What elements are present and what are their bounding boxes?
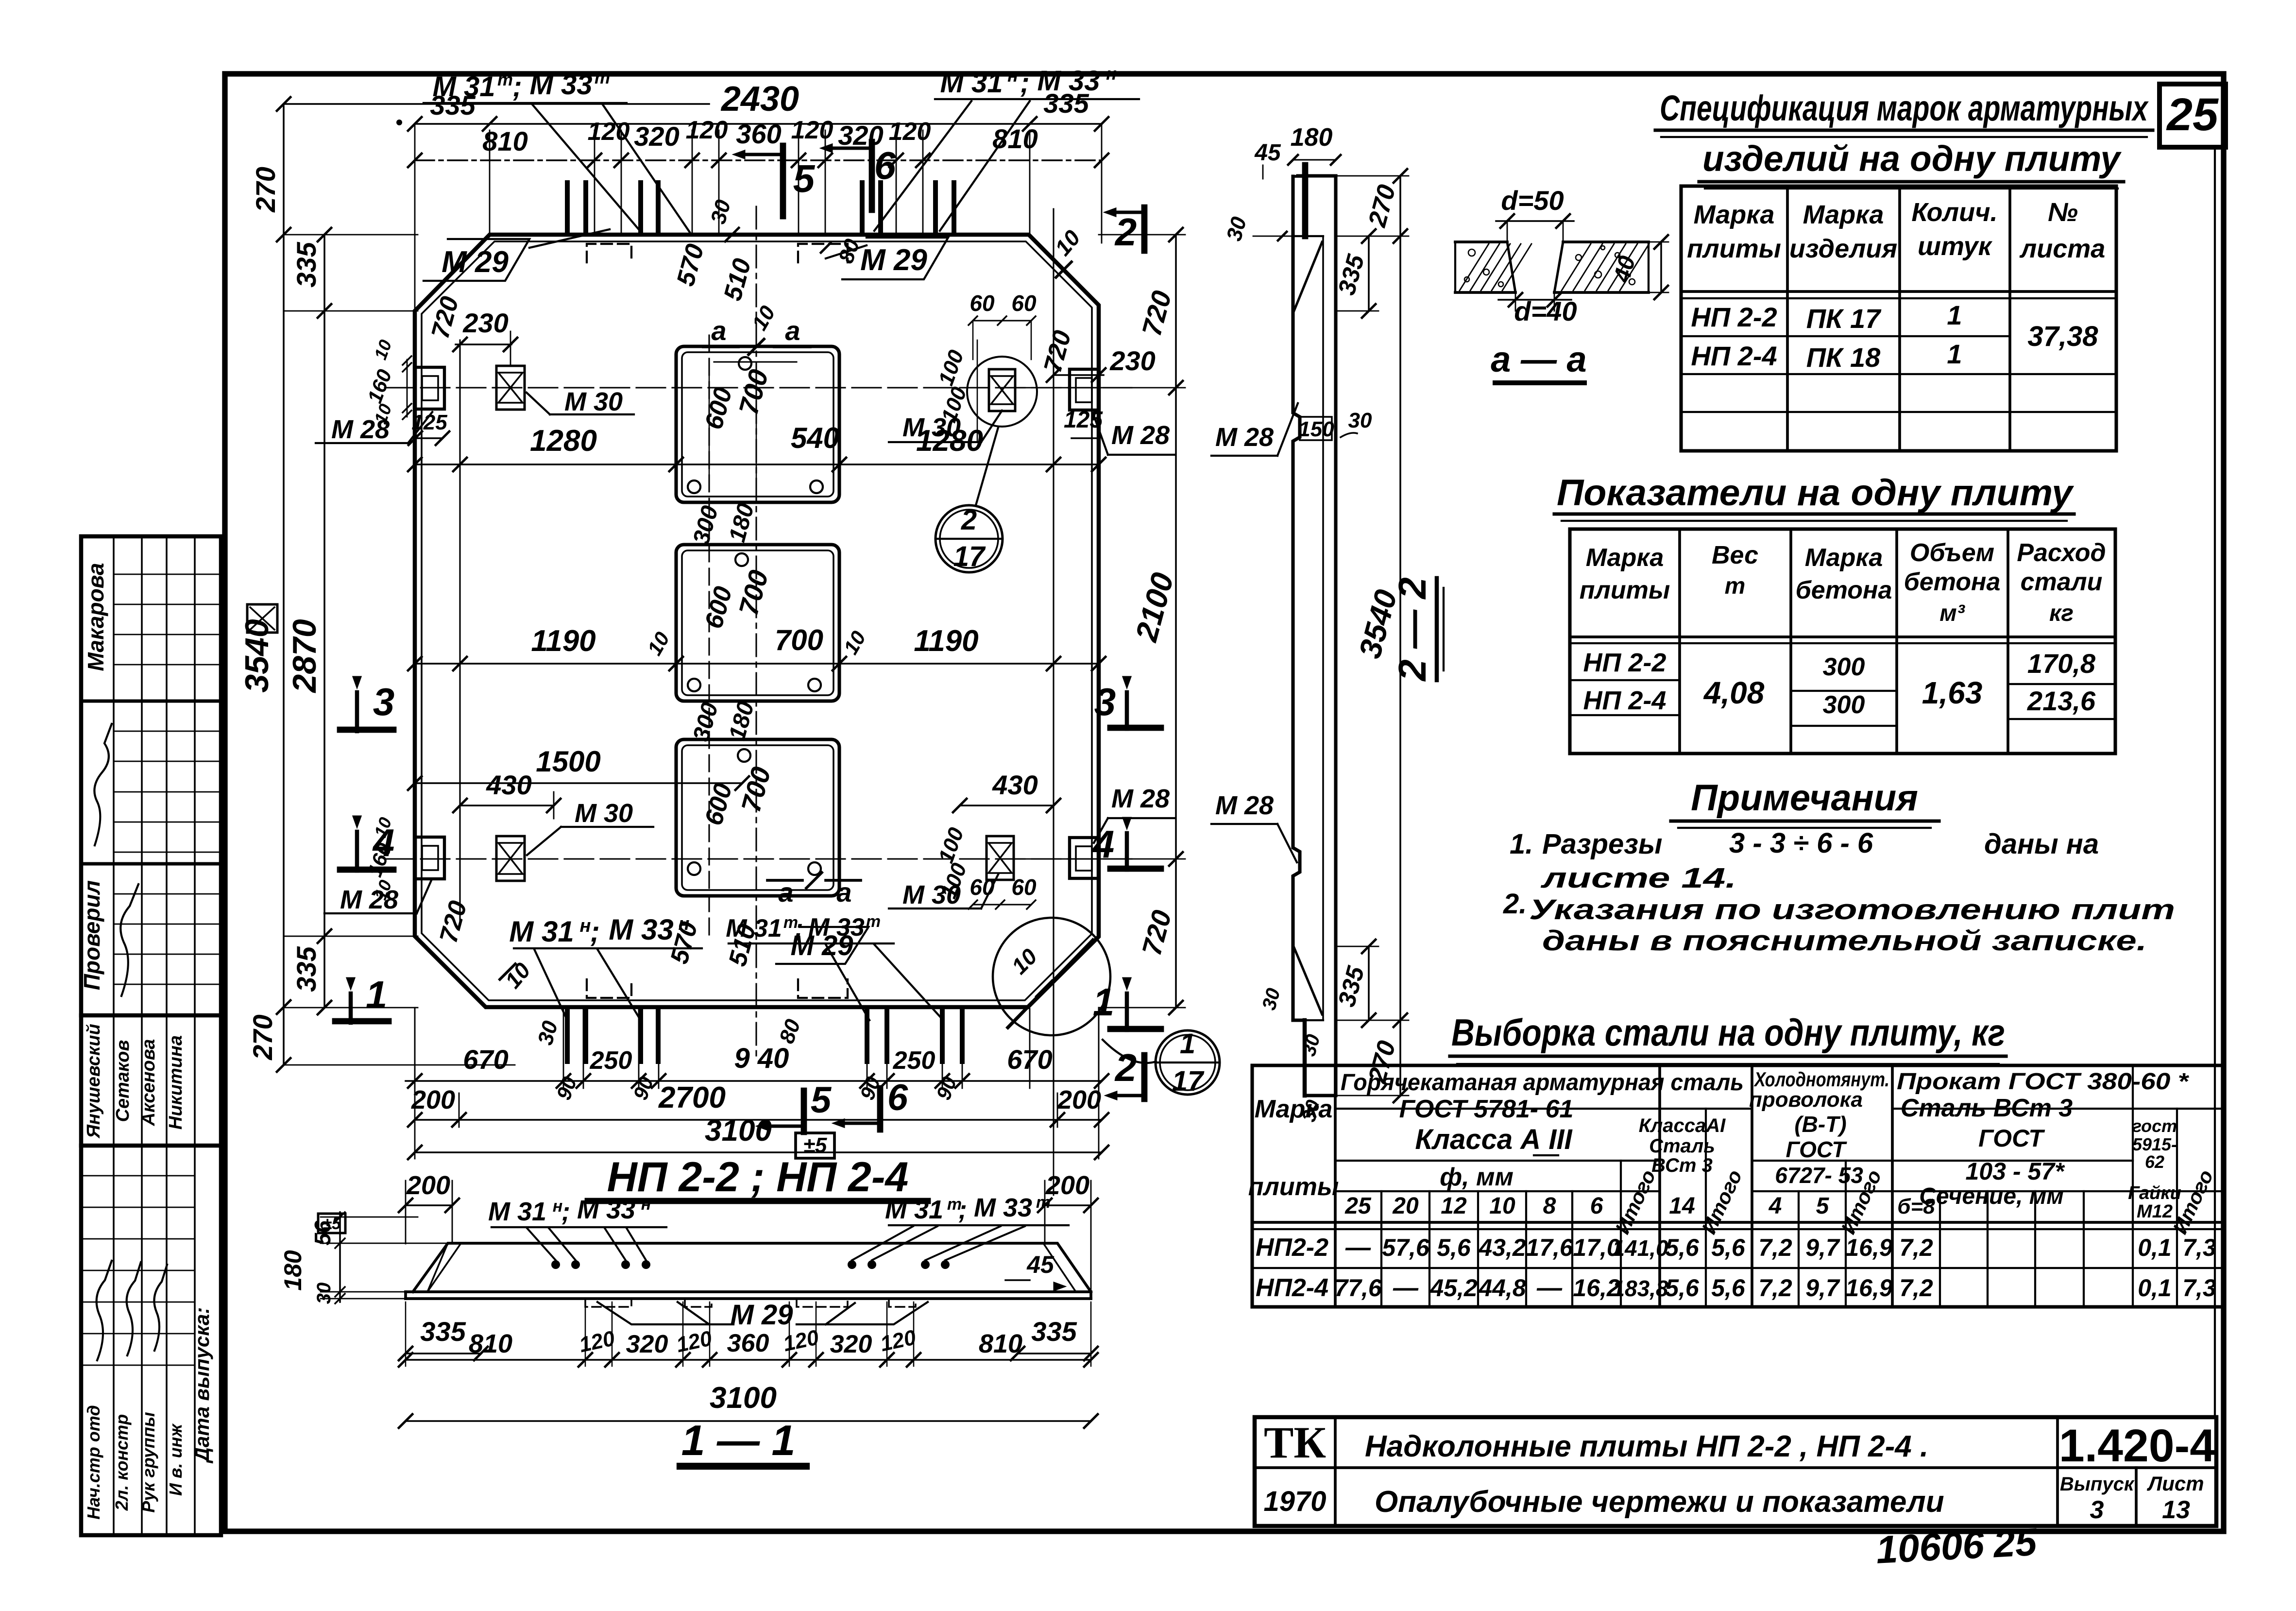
detail circle bottom-right chamfer xyxy=(993,918,1110,1035)
svg-text:335: 335 xyxy=(420,1316,466,1347)
svg-text:проволока: проволока xyxy=(1749,1088,1863,1112)
svg-text:1280: 1280 xyxy=(530,424,597,458)
svg-text:листа: листа xyxy=(2019,234,2106,263)
svg-text:213,6: 213,6 xyxy=(2027,686,2096,716)
svg-text:100: 100 xyxy=(937,860,971,902)
svg-text:335: 335 xyxy=(1333,963,1370,1010)
svg-text:30: 30 xyxy=(1258,986,1284,1012)
svg-text:Сетаков: Сетаков xyxy=(113,1040,133,1122)
svg-text:И в. инж: И в. инж xyxy=(166,1423,186,1496)
svg-text:М 28: М 28 xyxy=(1215,423,1274,452)
svg-text:изделий на одну плиту: изделий на одну плиту xyxy=(1702,138,2122,179)
svg-text:3100: 3100 xyxy=(705,1114,772,1148)
svg-text:плиты: плиты xyxy=(1248,1173,1339,1201)
svg-text:±5: ±5 xyxy=(323,1215,341,1233)
top extension lines xyxy=(489,130,491,233)
section 2-2 dim 335 top xyxy=(1368,236,1370,311)
right dim line 720-2100-720 xyxy=(1175,235,1177,1008)
svg-text:Примечания: Примечания xyxy=(1691,777,1918,819)
svg-text:30: 30 xyxy=(1222,214,1251,243)
svg-text:125: 125 xyxy=(1064,407,1103,433)
svg-text:КлассаАI: КлассаАI xyxy=(1639,1115,1726,1136)
svg-text:ВСт 3: ВСт 3 xyxy=(1651,1155,1713,1176)
svg-text:670: 670 xyxy=(1007,1044,1052,1075)
svg-text:200: 200 xyxy=(1057,1085,1101,1114)
dimension chain 335-2430-335 top xyxy=(415,123,1102,125)
svg-text:3: 3 xyxy=(373,680,395,723)
svg-text:120: 120 xyxy=(878,1325,918,1356)
label 150 box section xyxy=(1300,417,1332,440)
left dim line 335-2870-335 xyxy=(323,235,325,1008)
dim line 1190-700-1190 xyxy=(415,663,1099,665)
svg-text:10606: 10606 xyxy=(1875,1523,1985,1572)
detail a-a dim d50 xyxy=(1496,220,1574,222)
section 2-2 chamfer diagonals xyxy=(1294,242,1322,311)
svg-text:45: 45 xyxy=(1026,1251,1054,1278)
svg-text:17: 17 xyxy=(953,541,986,572)
svg-text:т: т xyxy=(1725,573,1746,599)
svg-text:М 31: М 31 xyxy=(726,914,782,943)
svg-text:270: 270 xyxy=(250,167,281,212)
svg-text:Марка: Марка xyxy=(1586,544,1664,572)
svg-text:4: 4 xyxy=(372,821,395,864)
svg-text:4: 4 xyxy=(1769,1193,1782,1219)
svg-text:М 30: М 30 xyxy=(575,799,633,828)
dim 230 top-right xyxy=(1054,374,1104,376)
svg-text:670: 670 xyxy=(463,1044,508,1075)
svg-text:ПК 17: ПК 17 xyxy=(1806,303,1882,334)
chamfer diagonal emphasized xyxy=(1008,940,1093,1028)
dimension chain 810-120-320-120-360-120-320-120-810 top xyxy=(415,159,1102,161)
svg-text:200: 200 xyxy=(1045,1171,1089,1200)
svg-text:М 33: М 33 xyxy=(577,1195,635,1224)
svg-text:3: 3 xyxy=(1094,680,1116,723)
svg-text:320: 320 xyxy=(830,1330,872,1358)
svg-text:плиты: плиты xyxy=(1687,234,1781,263)
opening O1 xyxy=(676,346,839,502)
svg-text:1.420-4: 1.420-4 xyxy=(2059,1420,2215,1472)
svg-text:25: 25 xyxy=(1344,1193,1372,1219)
svg-text:0,1: 0,1 xyxy=(2138,1274,2172,1302)
svg-text:6: 6 xyxy=(874,144,896,187)
lifting hole circles O3 xyxy=(738,749,750,762)
svg-text:10: 10 xyxy=(1006,943,1042,979)
svg-text:320: 320 xyxy=(634,121,679,152)
svg-text:60: 60 xyxy=(969,291,995,316)
svg-text:270: 270 xyxy=(247,1014,278,1060)
svg-text:Сталь: Сталь xyxy=(1649,1135,1715,1157)
svg-text:100: 100 xyxy=(934,347,969,389)
svg-text:300: 300 xyxy=(1823,691,1865,719)
svg-text:90: 90 xyxy=(552,1074,581,1103)
axis line through holes xyxy=(708,335,710,938)
svg-text:13: 13 xyxy=(2162,1496,2190,1524)
steel table horizontals xyxy=(1335,1108,1752,1110)
dim 335 section left xyxy=(406,1353,481,1354)
svg-text:3540: 3540 xyxy=(238,619,275,692)
svg-text:н: н xyxy=(641,1195,651,1214)
svg-text:9,7: 9,7 xyxy=(1805,1274,1840,1302)
svg-text:5: 5 xyxy=(793,157,816,200)
svg-text:300: 300 xyxy=(688,700,723,744)
title block frame xyxy=(1255,1417,2216,1526)
svg-text:штук: штук xyxy=(1918,232,1993,261)
svg-text:т: т xyxy=(497,69,513,89)
svg-text:М 33: М 33 xyxy=(1037,65,1100,97)
steel table frame xyxy=(1252,1065,2224,1307)
section 1-1 left dims xyxy=(321,1243,452,1244)
svg-text:320: 320 xyxy=(626,1330,668,1358)
svg-text:360: 360 xyxy=(727,1329,769,1357)
svg-text:М 28: М 28 xyxy=(1111,784,1170,813)
svg-text:10: 10 xyxy=(839,627,870,658)
svg-text:1190: 1190 xyxy=(531,624,595,658)
svg-text:1500: 1500 xyxy=(536,745,600,778)
svg-text:1: 1 xyxy=(1947,339,1962,369)
svg-text:a: a xyxy=(778,877,793,908)
svg-text:7,2: 7,2 xyxy=(1758,1274,1792,1302)
svg-text:200: 200 xyxy=(411,1085,455,1114)
detail a-a trapezoid hole xyxy=(1507,242,1515,292)
svg-text:335: 335 xyxy=(291,946,322,992)
svg-text:9 40: 9 40 xyxy=(734,1043,789,1074)
svg-text:720: 720 xyxy=(434,898,472,946)
svg-text:25: 25 xyxy=(2166,89,2219,140)
label M29 top-right parallelogram xyxy=(842,238,948,279)
svg-text:;: ; xyxy=(561,1197,570,1226)
svg-text:М 28: М 28 xyxy=(1215,791,1274,820)
svg-text:a: a xyxy=(711,315,726,346)
specification table frame xyxy=(1681,186,2116,451)
svg-text:300: 300 xyxy=(688,503,723,547)
svg-text:М 29: М 29 xyxy=(442,245,509,279)
svg-text:14: 14 xyxy=(1669,1193,1695,1219)
svg-text:100: 100 xyxy=(934,824,969,866)
svg-text:ПК 18: ПК 18 xyxy=(1806,342,1881,373)
axis upper embeds horizontal xyxy=(385,387,1132,388)
leader lines M31n M33n to prongs xyxy=(874,101,971,231)
svg-text:120: 120 xyxy=(577,1326,617,1357)
svg-text:150: 150 xyxy=(1298,417,1334,441)
svg-text:М 33: М 33 xyxy=(609,913,673,946)
svg-text:Янушевский: Янушевский xyxy=(84,1024,104,1139)
svg-text:;: ; xyxy=(1020,67,1029,99)
svg-text:37,38: 37,38 xyxy=(2027,321,2098,352)
dim line 1280-540-1280 xyxy=(415,463,1099,465)
cut marks a-a bottom xyxy=(767,879,802,882)
svg-text:ГОСТ: ГОСТ xyxy=(1786,1137,1848,1162)
svg-text:5915-: 5915- xyxy=(2132,1134,2177,1154)
svg-text:1 — 1: 1 — 1 xyxy=(681,1416,796,1464)
svg-text:200: 200 xyxy=(406,1171,450,1200)
section 2-2 top dims xyxy=(1293,159,1336,160)
section 1-1 bottom strip xyxy=(406,1290,1091,1293)
svg-text:М 33: М 33 xyxy=(530,69,593,101)
svg-text:;: ; xyxy=(512,71,522,103)
section 2-2 outline left face xyxy=(1293,236,1300,1020)
svg-text:5,6: 5,6 xyxy=(1665,1274,1700,1302)
svg-text:4,08: 4,08 xyxy=(1703,675,1765,710)
svg-text:Итого: Итого xyxy=(1611,1166,1660,1237)
svg-text:1: 1 xyxy=(1093,980,1115,1024)
svg-text:0,1: 0,1 xyxy=(2138,1234,2172,1261)
svg-text:720: 720 xyxy=(426,293,464,342)
svg-text:335: 335 xyxy=(1031,1316,1077,1347)
svg-text:2: 2 xyxy=(1114,1046,1137,1089)
svg-text:даны в пояснительной зап: даны в пояснительной записке. xyxy=(1542,925,2147,957)
svg-text:60: 60 xyxy=(1011,874,1037,900)
svg-text:1: 1 xyxy=(1947,300,1962,330)
steel table main verticals xyxy=(1334,1065,1337,1307)
svg-text:Опалубочные чертежи и показа: Опалубочные чертежи и показатели xyxy=(1375,1485,1944,1519)
svg-text:5: 5 xyxy=(1816,1193,1830,1219)
svg-text:НП 2-2: НП 2-2 xyxy=(1583,648,1667,677)
detail a-a aggregate dots xyxy=(1468,249,1475,256)
svg-text:250: 250 xyxy=(893,1046,935,1075)
svg-text:стали: стали xyxy=(2021,568,2103,596)
plan right edge extension up xyxy=(1101,124,1103,243)
svg-text:ТК: ТК xyxy=(1264,1418,1326,1467)
svg-text:a — a: a — a xyxy=(1491,339,1586,379)
section mark 1 bottom-right xyxy=(1125,994,1129,1030)
svg-text:540: 540 xyxy=(791,422,839,454)
svg-text:720: 720 xyxy=(1136,907,1177,959)
svg-text:120: 120 xyxy=(791,116,833,144)
svg-text:183,8: 183,8 xyxy=(1612,1276,1668,1301)
section 2-2 extension lines right xyxy=(1336,175,1409,177)
svg-text:—: — xyxy=(1536,1274,1563,1302)
svg-text:12: 12 xyxy=(1441,1193,1467,1219)
svg-text:Класса А III: Класса А III xyxy=(1415,1124,1573,1155)
lifting hole circles O1 xyxy=(739,357,751,370)
svg-text:н: н xyxy=(1106,64,1117,84)
svg-text:180: 180 xyxy=(279,1250,306,1291)
leader balloon to M30 circle xyxy=(976,428,998,505)
svg-text:1,63: 1,63 xyxy=(1922,675,1983,710)
svg-text:16,9: 16,9 xyxy=(1845,1234,1893,1261)
svg-text:810: 810 xyxy=(992,123,1037,154)
sheet border frame xyxy=(225,74,2224,1531)
svg-text:1190: 1190 xyxy=(914,624,978,658)
dim 335 section right xyxy=(1018,1353,1091,1354)
steel table sub verticals group B-T xyxy=(1798,1191,1800,1307)
svg-text:600: 600 xyxy=(699,384,737,432)
svg-text:М 31: М 31 xyxy=(488,1197,546,1226)
svg-text:Объем: Объем xyxy=(1910,539,1994,567)
dims 60-60 bottom-right xyxy=(973,904,1031,905)
svg-text:a: a xyxy=(836,877,851,908)
section mark 2 top-right xyxy=(1141,207,1148,251)
svg-text:57,6: 57,6 xyxy=(1382,1234,1430,1261)
svg-text:1: 1 xyxy=(1180,1028,1195,1060)
dim 430 bottom-left xyxy=(460,805,554,806)
svg-text:10: 10 xyxy=(748,302,780,334)
dim chain 200-2700-200 xyxy=(415,1119,1102,1121)
svg-text:М 29: М 29 xyxy=(731,1299,793,1331)
opening O2 xyxy=(676,545,839,701)
lifting hole circles O2 xyxy=(735,553,748,566)
svg-text:даны на: даны на xyxy=(1984,828,2099,860)
detail a-a hatching left xyxy=(1460,244,1489,291)
embed M30 bottom-left xyxy=(496,836,525,881)
svg-text:2 — 2: 2 — 2 xyxy=(1391,577,1434,682)
svg-text:10: 10 xyxy=(1050,225,1085,260)
cut marks a-a top xyxy=(703,345,738,348)
stamp ruled lines top section xyxy=(114,574,221,575)
svg-text:Указания по изготовлению: Указания по изготовлению плит xyxy=(1529,894,2175,925)
svg-text:700: 700 xyxy=(775,624,823,656)
svg-text:6727- 53: 6727- 53 xyxy=(1775,1163,1863,1188)
svg-text:Гайки: Гайки xyxy=(2128,1183,2181,1203)
leader lines M31t M33t to prongs xyxy=(532,104,641,232)
svg-text:d=40: d=40 xyxy=(1514,296,1577,326)
svg-text:М 30: М 30 xyxy=(564,387,623,416)
svg-text:Сталь ВСт 3: Сталь ВСт 3 xyxy=(1901,1094,2073,1122)
svg-text:6: 6 xyxy=(887,1077,908,1118)
axis centerline vertical xyxy=(755,206,757,1062)
svg-text:5,6: 5,6 xyxy=(1437,1234,1471,1261)
svg-text:5: 5 xyxy=(811,1080,832,1121)
section mark 3 left xyxy=(355,692,359,731)
section mark 3 right xyxy=(1125,692,1129,729)
svg-text:Никитина: Никитина xyxy=(166,1035,186,1130)
svg-text:180: 180 xyxy=(724,500,759,545)
svg-text:М 28: М 28 xyxy=(331,415,390,444)
top rebar prongs xyxy=(565,183,570,233)
svg-text:700: 700 xyxy=(735,764,777,816)
svg-text:10: 10 xyxy=(370,337,395,362)
embed M28 bottom-right xyxy=(1070,838,1099,878)
dim 1500 bottom-left xyxy=(415,782,742,784)
svg-text:Проверил: Проверил xyxy=(79,880,104,990)
svg-text:2430: 2430 xyxy=(720,80,799,119)
steel table sub verticals group A-I xyxy=(1705,1109,1707,1307)
svg-text:Рук группы: Рук группы xyxy=(138,1412,158,1513)
svg-text:600: 600 xyxy=(699,780,737,828)
stamp signature 1 xyxy=(94,724,112,845)
svg-text:Расход: Расход xyxy=(2017,539,2106,567)
dashed brackets M29 under section 1-1 xyxy=(585,1300,631,1307)
svg-text:250: 250 xyxy=(590,1046,632,1075)
dashed bracket M29 bottom-left xyxy=(587,979,631,998)
svg-text:Макарова: Макарова xyxy=(83,563,108,671)
steel table sub verticals group prokat xyxy=(1939,1191,1941,1307)
plan left edge extension up xyxy=(414,124,416,315)
section 1-1 inner chamfer lines xyxy=(427,1245,460,1292)
section 2-2 bottom xyxy=(1293,1018,1305,1022)
svg-text:7,2: 7,2 xyxy=(1899,1234,1933,1261)
svg-text:плиты: плиты xyxy=(1580,576,1670,604)
svg-text:2870: 2870 xyxy=(286,619,323,693)
svg-text:600: 600 xyxy=(699,583,737,632)
svg-text:60: 60 xyxy=(969,874,995,900)
svg-text:б=8: б=8 xyxy=(1897,1195,1935,1218)
dashed bracket M29 top-right xyxy=(798,244,848,262)
svg-text:Выборка стали на одну плиту,: Выборка стали на одну плиту, кг xyxy=(1451,1011,2005,1054)
svg-text:2: 2 xyxy=(961,504,977,536)
svg-text:80: 80 xyxy=(775,1016,805,1046)
dim 200 section right xyxy=(1045,1204,1091,1206)
dim 200 section left xyxy=(406,1204,452,1206)
left extension lines xyxy=(284,103,418,105)
section mark 5 bottom xyxy=(801,1091,807,1132)
section 2-2 outline top xyxy=(1298,174,1336,177)
svg-text:1970: 1970 xyxy=(1263,1486,1326,1517)
svg-text:570: 570 xyxy=(671,241,709,289)
section 1-1 dim 3100 xyxy=(406,1420,1091,1422)
svg-text:НП 2-2: НП 2-2 xyxy=(1691,302,1777,332)
svg-text:1: 1 xyxy=(366,973,388,1016)
svg-text:НП2-4: НП2-4 xyxy=(1256,1274,1328,1302)
dim 230 top-left xyxy=(456,343,511,345)
svg-text:Вес: Вес xyxy=(1712,541,1758,569)
svg-text:60: 60 xyxy=(1011,291,1037,316)
svg-text:М 31: М 31 xyxy=(433,71,495,103)
svg-text:М 30: М 30 xyxy=(902,413,961,442)
svg-text:н: н xyxy=(580,916,591,936)
dashed bracket M29 top-left xyxy=(587,244,631,262)
svg-text:ГОСТ: ГОСТ xyxy=(1978,1125,2045,1152)
svg-text:103 - 57*: 103 - 57* xyxy=(1966,1158,2065,1185)
section mark 4 right xyxy=(1125,833,1129,870)
svg-text:62: 62 xyxy=(2145,1152,2164,1172)
svg-text:2.: 2. xyxy=(1503,888,1527,920)
dim 125 top-left xyxy=(415,437,442,439)
detail a-a concrete band xyxy=(1455,240,1507,243)
svg-text:45,2: 45,2 xyxy=(1429,1274,1478,1302)
bottom rebar prongs xyxy=(565,1009,570,1062)
dims 100-100 top-right rotated xyxy=(977,340,978,442)
svg-text:430: 430 xyxy=(992,770,1037,800)
axis lower embeds horizontal xyxy=(385,858,1132,859)
svg-text:НП2-2: НП2-2 xyxy=(1256,1234,1328,1262)
plan slab inner outline xyxy=(422,241,1092,1000)
svg-text:90: 90 xyxy=(932,1074,961,1103)
svg-text:Прокат ГОСТ 380-60 *: Прокат ГОСТ 380-60 * xyxy=(1897,1069,2190,1095)
dim 3100 total xyxy=(415,1151,1102,1153)
section 2-2 dim 335 bottom xyxy=(1368,946,1370,1020)
section mark 4 left xyxy=(355,832,359,871)
svg-text:3 - 3 ÷ 6 - 6: 3 - 3 ÷ 6 - 6 xyxy=(1729,827,1873,859)
svg-text:430: 430 xyxy=(486,770,531,800)
svg-text:;: ; xyxy=(590,915,600,948)
svg-text:270: 270 xyxy=(1363,182,1401,230)
opening O1 top dim ticks xyxy=(714,361,797,362)
svg-text:т: т xyxy=(595,68,610,87)
dims 60-60 top-right xyxy=(973,320,1031,321)
svg-text:;: ; xyxy=(958,1195,967,1224)
svg-text:a: a xyxy=(785,315,800,346)
svg-text:М 31: М 31 xyxy=(885,1195,943,1224)
svg-text:30: 30 xyxy=(1348,409,1372,432)
inner right border line xyxy=(2214,147,2216,1417)
svg-text:НП 2-2 ; НП 2-4: НП 2-2 ; НП 2-4 xyxy=(607,1154,909,1200)
leader balloon 1-17 xyxy=(1103,1040,1156,1063)
svg-text:Марка: Марка xyxy=(1694,200,1775,229)
svg-text:8: 8 xyxy=(1543,1193,1556,1219)
svg-text:7,3: 7,3 xyxy=(2182,1234,2216,1261)
svg-text:Марка: Марка xyxy=(1255,1095,1333,1123)
svg-text:М 28: М 28 xyxy=(1111,421,1170,450)
svg-text:700: 700 xyxy=(733,366,774,418)
svg-text:700: 700 xyxy=(733,567,774,619)
svg-text:2: 2 xyxy=(1114,210,1137,254)
svg-text:6: 6 xyxy=(1590,1193,1603,1219)
steel table sub verticals group A-III xyxy=(1380,1191,1382,1307)
stray ink dot xyxy=(396,120,402,125)
svg-text:4: 4 xyxy=(1092,823,1115,866)
embed M28 bottom-left xyxy=(415,837,444,879)
